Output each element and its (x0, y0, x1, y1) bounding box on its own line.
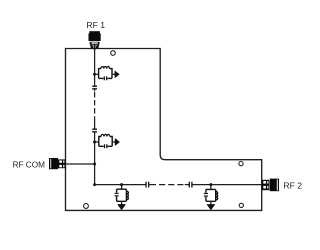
resonator Z3 box (117, 189, 127, 201)
arrow shunt 1 (118, 205, 125, 210)
connector J2 RF COM (left) (49, 158, 65, 169)
wire Z2 to arrow (112, 141, 115, 143)
inductor L4 (right of Z4) (216, 192, 218, 200)
node B (branch 2 junction) (93, 141, 96, 144)
mounting hole bottom-left (84, 204, 89, 209)
capacitor C4 (series, bottom line) (189, 182, 192, 188)
wire Z1 to arrow (112, 73, 115, 75)
svg-text:RF 1: RF 1 (86, 20, 105, 30)
resonator Z2 box (99, 137, 112, 147)
inductor L3 (right of Z3) (126, 191, 128, 199)
connector J3 RF 2 (right) (262, 179, 279, 192)
capacitor C1 (series, RF1 line) (92, 86, 97, 89)
wire bottom horizontal left (95, 184, 146, 186)
capacitor C (left of Z4) (204, 194, 208, 197)
capacitor C2 (series, RF1 line) (92, 129, 97, 132)
resonator Z4 box (206, 189, 216, 201)
node C (RF COM junction) (93, 163, 96, 166)
mounting hole top (111, 51, 116, 56)
capacitor C (left of Z3) (115, 193, 119, 196)
wire Z3 to arrow (121, 201, 123, 205)
resonator Z1 box (99, 69, 112, 79)
wire shunt 1 stem top (121, 185, 123, 190)
node F (shunt 2 junction) (209, 183, 212, 186)
wire bottom horizontal right (192, 184, 262, 186)
connector J1 RF 1 (top) (89, 31, 101, 50)
wire shunt 2 stem top (210, 185, 212, 190)
arrow branch 2 (115, 139, 119, 145)
wire Z4 to arrow (210, 201, 212, 205)
svg-text:RF 2: RF 2 (283, 181, 302, 191)
wire stub before C4 (185, 184, 190, 186)
node A (branch 1 junction) (93, 73, 96, 76)
wire branch 1 (95, 73, 99, 75)
inductor L1 (top of Z1) (101, 67, 110, 69)
capacitor C3 (series, bottom line) (146, 182, 149, 188)
arrow branch 1 (115, 71, 119, 77)
wire stub after C3 (149, 184, 156, 186)
capacitor C (bottom of Z2) (105, 144, 107, 148)
arrow shunt 2 (207, 205, 214, 210)
svg-text:RF COM: RF COM (13, 161, 45, 170)
wire branch 2 (95, 141, 99, 143)
wire RF COM horizontal (66, 163, 95, 165)
enclosure outline (66, 49, 262, 211)
wire dashed horizontal segment (159, 184, 183, 186)
wire RF1 vertical upper (94, 49, 96, 87)
inductor L2 (top of Z2) (101, 134, 110, 136)
mounting hole right-lower (239, 203, 243, 207)
node D (corner junction) (93, 183, 96, 186)
capacitor C (bottom of Z1) (104, 76, 106, 80)
node E (shunt 1 junction) (120, 183, 123, 186)
wire stub below C1 (94, 89, 96, 92)
wire solid to C2 (94, 118, 96, 129)
wire dashed vertical segment (94, 92, 96, 118)
mounting hole right-upper (239, 162, 243, 166)
wire RF1 vertical lower (94, 132, 96, 185)
